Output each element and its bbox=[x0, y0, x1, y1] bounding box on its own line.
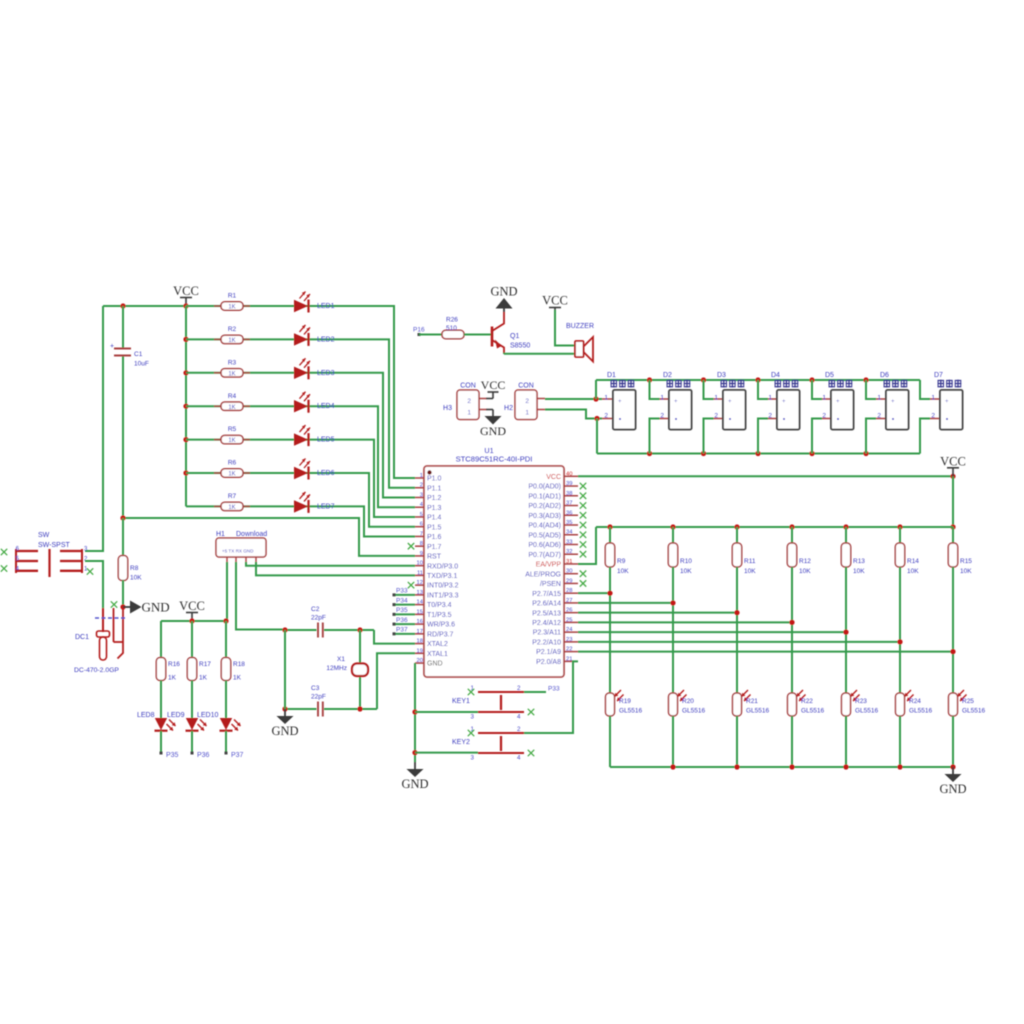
svg-text:30: 30 bbox=[566, 569, 572, 575]
wire VCC to buzzer bbox=[555, 310, 575, 346]
svg-text:1: 1 bbox=[420, 473, 423, 479]
power VCC (buzzer) bbox=[542, 294, 568, 311]
wire P2 bus to R15 column bbox=[578, 649, 956, 654]
svg-text:+: + bbox=[945, 399, 949, 405]
svg-text:D5: D5 bbox=[825, 372, 834, 379]
svg-text:3: 3 bbox=[420, 492, 423, 498]
LED6 diode bbox=[294, 459, 335, 480]
photoresistor R23 GL5516 bbox=[842, 690, 879, 767]
svg-text:1K: 1K bbox=[228, 505, 235, 511]
photoresistor R21 GL5516 bbox=[733, 690, 770, 767]
svg-text:10K: 10K bbox=[130, 575, 142, 582]
net label P37 bbox=[225, 752, 244, 760]
svg-text:+: + bbox=[674, 399, 678, 405]
svg-text:R4: R4 bbox=[228, 393, 237, 400]
svg-text:1K: 1K bbox=[228, 472, 235, 478]
svg-text:8: 8 bbox=[420, 541, 423, 547]
svg-text:LED2: LED2 bbox=[317, 336, 335, 343]
resistor R16 1K bbox=[156, 621, 180, 718]
capacitor C3 22pF bbox=[285, 685, 377, 717]
power VCC (LED8-10 rail) bbox=[179, 599, 205, 621]
svg-text:10K: 10K bbox=[853, 568, 865, 575]
wire MCU GND to ground rail bbox=[412, 663, 417, 762]
wire left outer column to switch bbox=[85, 306, 103, 551]
svg-text:1K: 1K bbox=[199, 675, 208, 682]
ground GND (Q1 collector, arrow up) bbox=[490, 285, 517, 313]
svg-text:LED5: LED5 bbox=[317, 437, 335, 444]
svg-text:2: 2 bbox=[467, 398, 471, 405]
svg-text:DC-470-2.0GP: DC-470-2.0GP bbox=[74, 667, 119, 674]
svg-text:P2.3/A11: P2.3/A11 bbox=[533, 630, 561, 637]
svg-text:+5 TX RX GND: +5 TX RX GND bbox=[222, 549, 254, 554]
wire LED row 5 bbox=[186, 440, 415, 517]
net label P37 stub bbox=[393, 627, 416, 636]
switch SW SW-SPST bbox=[16, 532, 88, 577]
svg-text:10uF: 10uF bbox=[134, 361, 149, 368]
svg-text:LED3: LED3 bbox=[317, 370, 335, 377]
wire D sensors bottom rail bbox=[597, 419, 920, 457]
connector H2 CON bbox=[504, 383, 545, 420]
svg-text:H3: H3 bbox=[443, 405, 452, 412]
svg-text:P1.4: P1.4 bbox=[427, 515, 442, 522]
svg-text:GL5516: GL5516 bbox=[682, 708, 706, 715]
svg-text:LED8: LED8 bbox=[137, 712, 155, 719]
svg-text:1: 1 bbox=[768, 395, 772, 402]
photoresistor R19 GL5516 bbox=[606, 690, 643, 767]
wire VCC column to pull-up rail bbox=[950, 476, 955, 529]
svg-text:R14: R14 bbox=[907, 558, 919, 565]
svg-text:H1: H1 bbox=[216, 531, 225, 538]
svg-text:15: 15 bbox=[417, 609, 423, 615]
wire D sensors top rail bbox=[596, 377, 920, 399]
svg-text:R26: R26 bbox=[446, 317, 458, 324]
LED3 diode bbox=[294, 358, 335, 379]
node DC1 ground junction bbox=[120, 604, 125, 609]
svg-text:GND: GND bbox=[480, 424, 506, 438]
svg-text:D4: D4 bbox=[771, 372, 780, 379]
svg-text:R10: R10 bbox=[680, 558, 692, 565]
svg-text:P1.1: P1.1 bbox=[427, 485, 442, 492]
power VCC (right) bbox=[940, 454, 966, 476]
svg-text:1: 1 bbox=[525, 410, 529, 417]
wire LED row 6 bbox=[186, 473, 415, 527]
svg-text:10K: 10K bbox=[907, 568, 919, 575]
wire P2 bus to R12 column bbox=[578, 620, 795, 625]
svg-text:SW: SW bbox=[38, 532, 50, 539]
svg-text:D7: D7 bbox=[934, 372, 943, 379]
svg-text:5: 5 bbox=[420, 512, 423, 518]
svg-text:1: 1 bbox=[931, 395, 935, 402]
svg-text:1: 1 bbox=[604, 395, 608, 402]
resistor R1 bbox=[214, 293, 250, 311]
svg-text:R18: R18 bbox=[233, 661, 245, 668]
svg-text:P2.6/A14: P2.6/A14 bbox=[532, 601, 561, 608]
LED9 diode bbox=[186, 718, 207, 753]
net label P16 bbox=[413, 327, 442, 337]
svg-text:R2: R2 bbox=[228, 326, 237, 333]
svg-text:1: 1 bbox=[714, 395, 718, 402]
resistor R14 10K bbox=[895, 527, 919, 693]
ground GND (crystal) bbox=[271, 709, 298, 738]
node C2 left junction bbox=[282, 627, 287, 632]
resistor R2 bbox=[214, 326, 250, 344]
svg-text:R20: R20 bbox=[682, 698, 694, 705]
push button KEY2 bbox=[452, 726, 524, 762]
wire LED row 3 bbox=[186, 373, 415, 498]
svg-text:4: 4 bbox=[517, 755, 521, 762]
svg-text:P1.7: P1.7 bbox=[427, 544, 442, 551]
wire KEY1 pin3 to ground rail bbox=[415, 711, 478, 713]
svg-text:2: 2 bbox=[931, 413, 935, 420]
svg-text:STC89C51RC-40I-PDI: STC89C51RC-40I-PDI bbox=[456, 455, 533, 464]
svg-text:X1: X1 bbox=[337, 656, 345, 663]
svg-text:P1.2: P1.2 bbox=[427, 495, 442, 502]
svg-text:39: 39 bbox=[566, 481, 572, 487]
svg-text:P2.2/A10: P2.2/A10 bbox=[532, 639, 561, 646]
crystal X1 12MHz bbox=[326, 630, 368, 709]
svg-text:2: 2 bbox=[604, 413, 608, 420]
ground GND (arrow right at DC1) bbox=[123, 600, 170, 615]
svg-text:26: 26 bbox=[566, 608, 572, 614]
svg-text:Download: Download bbox=[236, 531, 267, 538]
svg-text:R1: R1 bbox=[228, 293, 237, 300]
svg-text:R16: R16 bbox=[168, 661, 180, 668]
svg-text:11: 11 bbox=[417, 570, 423, 576]
svg-text:P37: P37 bbox=[396, 627, 408, 634]
resistor R15 10K bbox=[948, 527, 972, 693]
IC U1 STC89C51RC-40I-PDIP bbox=[415, 446, 578, 677]
svg-text:27: 27 bbox=[566, 598, 572, 604]
svg-text:TXD/P3.1: TXD/P3.1 bbox=[427, 573, 457, 580]
wire EA/VPP to VCC rail bbox=[578, 527, 596, 564]
svg-text:1K: 1K bbox=[233, 675, 242, 682]
svg-text:2: 2 bbox=[877, 413, 881, 420]
svg-text:P34: P34 bbox=[396, 597, 408, 604]
svg-text:D1: D1 bbox=[607, 372, 616, 379]
svg-text:P37: P37 bbox=[231, 752, 244, 759]
net label P36 stub bbox=[393, 617, 416, 626]
label LED8 bbox=[137, 712, 155, 719]
svg-text:GND: GND bbox=[939, 782, 966, 796]
svg-text:R3: R3 bbox=[228, 359, 237, 366]
svg-text:C2: C2 bbox=[311, 606, 320, 613]
wire VCC top rail bbox=[103, 303, 221, 308]
label LED10 bbox=[197, 712, 219, 719]
power VCC (top left) bbox=[173, 284, 199, 306]
svg-text:T1/P3.5: T1/P3.5 bbox=[427, 612, 452, 619]
svg-text:17: 17 bbox=[417, 629, 423, 635]
wire C2-C3 ground column bbox=[284, 630, 286, 709]
svg-text:1: 1 bbox=[467, 410, 471, 417]
svg-text:10K: 10K bbox=[744, 568, 756, 575]
svg-text:CON: CON bbox=[460, 383, 476, 390]
no-connect X DC1 middle contact bbox=[111, 601, 117, 607]
svg-text:3: 3 bbox=[471, 755, 475, 762]
wire photoresistor ground rail bbox=[610, 764, 956, 769]
svg-text:INT0/P3.2: INT0/P3.2 bbox=[427, 583, 459, 590]
push button KEY1 bbox=[452, 685, 524, 721]
resistor R5 bbox=[214, 426, 250, 444]
LED5 diode bbox=[294, 425, 335, 446]
svg-text:R21: R21 bbox=[746, 698, 758, 705]
svg-text:P36: P36 bbox=[396, 617, 408, 624]
wire VCC rail R16-R18 bbox=[161, 618, 229, 623]
svg-text:P2.7/A15: P2.7/A15 bbox=[532, 591, 561, 598]
svg-text:R5: R5 bbox=[228, 426, 237, 433]
svg-text:10K: 10K bbox=[799, 568, 811, 575]
capacitor C2 22pF bbox=[285, 606, 374, 638]
wire KEY2 pin3 to ground rail bbox=[415, 752, 478, 754]
svg-text:19: 19 bbox=[417, 648, 423, 654]
svg-text:ALE/PROG: ALE/PROG bbox=[525, 571, 561, 578]
connector H3 CON bbox=[443, 383, 486, 420]
svg-text:28: 28 bbox=[566, 588, 572, 594]
svg-text:38: 38 bbox=[566, 491, 572, 497]
svg-text:RST: RST bbox=[427, 554, 442, 561]
svg-text:R22: R22 bbox=[801, 698, 813, 705]
svg-text:+: + bbox=[618, 399, 622, 405]
resistor R17 1K bbox=[187, 621, 211, 718]
wire RST net bbox=[120, 515, 415, 556]
svg-text:P1.3: P1.3 bbox=[427, 505, 442, 512]
svg-text:GL5516: GL5516 bbox=[801, 708, 825, 715]
svg-text:1K: 1K bbox=[228, 305, 235, 311]
svg-text:P35: P35 bbox=[396, 607, 408, 614]
resistor R4 bbox=[214, 393, 250, 411]
svg-text:+: + bbox=[782, 399, 786, 405]
svg-text:P2.4/A12: P2.4/A12 bbox=[532, 620, 561, 627]
LED4 diode bbox=[294, 392, 335, 413]
svg-text:P0.5(AD5): P0.5(AD5) bbox=[528, 532, 561, 539]
resistor R12 10K bbox=[787, 527, 811, 693]
no-connect X switch left pins bbox=[1, 549, 7, 572]
svg-text:EA/VPP: EA/VPP bbox=[536, 562, 562, 569]
svg-text:RD/P3.7: RD/P3.7 bbox=[427, 631, 454, 638]
svg-text:P0.7(AD7): P0.7(AD7) bbox=[528, 552, 561, 559]
net label P34 stub bbox=[393, 597, 416, 606]
wire XTAL1 bbox=[377, 653, 415, 709]
svg-text:D3: D3 bbox=[717, 372, 726, 379]
svg-text:KEY2: KEY2 bbox=[452, 739, 470, 746]
svg-text:18: 18 bbox=[417, 639, 423, 645]
photo sensor D3 bbox=[704, 372, 746, 454]
svg-text:10K: 10K bbox=[617, 568, 629, 575]
resistor R7 bbox=[214, 493, 250, 511]
net label P36 bbox=[191, 752, 210, 760]
svg-text:P2.0/A8: P2.0/A8 bbox=[536, 659, 561, 666]
wire P2 bus to R11 column bbox=[578, 610, 740, 615]
svg-text:9: 9 bbox=[420, 551, 423, 557]
svg-text:36: 36 bbox=[566, 510, 572, 516]
svg-text:LED1: LED1 bbox=[317, 303, 335, 310]
svg-text:20: 20 bbox=[417, 658, 423, 664]
svg-text:Q1: Q1 bbox=[510, 333, 519, 340]
svg-text:VCC: VCC bbox=[173, 284, 199, 298]
connector H1 Download bbox=[216, 531, 267, 562]
resistor R11 10K bbox=[732, 527, 756, 693]
svg-text:R13: R13 bbox=[853, 558, 865, 565]
resistor R10 10K bbox=[668, 527, 692, 693]
svg-text:LED7: LED7 bbox=[317, 503, 335, 510]
svg-text:6: 6 bbox=[420, 522, 423, 528]
wire LED row 7 bbox=[186, 506, 415, 536]
photo sensor D6 bbox=[866, 372, 909, 454]
wire H1 pin1 to VCC rail bbox=[226, 562, 228, 621]
svg-text:31: 31 bbox=[566, 559, 572, 565]
svg-text:21: 21 bbox=[566, 656, 572, 662]
wire LED row 2 bbox=[186, 339, 415, 487]
svg-text:12MHz: 12MHz bbox=[326, 665, 347, 672]
svg-text:LED9: LED9 bbox=[167, 712, 185, 719]
svg-text:WR/P3.6: WR/P3.6 bbox=[427, 622, 455, 629]
svg-text:GND: GND bbox=[401, 777, 428, 791]
svg-text:1K: 1K bbox=[228, 371, 235, 377]
svg-text:VCC: VCC bbox=[940, 454, 966, 468]
svg-text:GL5516: GL5516 bbox=[746, 708, 770, 715]
svg-text:2: 2 bbox=[517, 685, 521, 692]
svg-text:H2: H2 bbox=[504, 405, 513, 412]
wire H1 pin3 to RXD bbox=[246, 562, 415, 566]
svg-text:40: 40 bbox=[566, 471, 572, 477]
photo sensor D1 bbox=[602, 372, 636, 430]
svg-text:1: 1 bbox=[877, 395, 881, 402]
wire P2 bus to R10 column bbox=[578, 600, 676, 605]
ground GND (H3) bbox=[480, 410, 506, 439]
no-connect X P1.7 bbox=[408, 543, 414, 549]
label LED9 bbox=[167, 712, 185, 719]
wire H1 pin2 to GND net bbox=[236, 562, 285, 630]
svg-text:23: 23 bbox=[566, 637, 572, 643]
svg-text:14: 14 bbox=[417, 600, 424, 606]
svg-text:22pF: 22pF bbox=[311, 694, 326, 701]
svg-text:12: 12 bbox=[417, 580, 423, 586]
svg-text:P33: P33 bbox=[396, 588, 408, 595]
net label P35 stub bbox=[393, 607, 416, 616]
buzzer BUZZER bbox=[566, 323, 594, 362]
wire XTAL2 bbox=[374, 630, 415, 644]
svg-text:C1: C1 bbox=[134, 351, 143, 358]
svg-text:1K: 1K bbox=[228, 405, 235, 411]
svg-text:2: 2 bbox=[660, 413, 664, 420]
LED1 diode bbox=[294, 292, 335, 313]
svg-text:+: + bbox=[728, 399, 732, 405]
svg-text:P0.4(AD4): P0.4(AD4) bbox=[528, 523, 561, 530]
photoresistor R25 GL5516 bbox=[949, 690, 986, 767]
svg-text:T0/P3.4: T0/P3.4 bbox=[427, 602, 452, 609]
svg-text:INT1/P3.3: INT1/P3.3 bbox=[427, 592, 459, 599]
no-connect X switch pin 1 bbox=[87, 568, 93, 574]
wire pull-up rail R9-R15 bbox=[596, 524, 953, 529]
svg-text:24: 24 bbox=[566, 627, 573, 633]
svg-text:P1.6: P1.6 bbox=[427, 534, 442, 541]
svg-text:2: 2 bbox=[517, 726, 521, 733]
svg-text:GL5516: GL5516 bbox=[619, 708, 643, 715]
svg-text:D6: D6 bbox=[880, 372, 889, 379]
svg-text:R23: R23 bbox=[855, 698, 867, 705]
svg-text:P2.1/A9: P2.1/A9 bbox=[536, 649, 561, 656]
svg-text:32: 32 bbox=[566, 549, 572, 555]
svg-text:37: 37 bbox=[566, 501, 572, 507]
svg-text:LED10: LED10 bbox=[197, 712, 219, 719]
svg-text:P0.0(AD0): P0.0(AD0) bbox=[528, 484, 561, 491]
svg-text:10: 10 bbox=[417, 561, 423, 567]
svg-text:R12: R12 bbox=[799, 558, 811, 565]
svg-text:R19: R19 bbox=[619, 698, 631, 705]
photoresistor R24 GL5516 bbox=[896, 690, 933, 767]
wire VCC P0 supply bbox=[578, 474, 956, 479]
svg-text:R9: R9 bbox=[617, 558, 626, 565]
svg-text:1K: 1K bbox=[168, 675, 177, 682]
svg-text:P16: P16 bbox=[413, 327, 425, 334]
ground GND (right) bbox=[939, 767, 966, 796]
svg-text:P33: P33 bbox=[548, 686, 560, 693]
net label P33 stub bbox=[393, 588, 416, 597]
wire H2 pin1 to D1 pin2 bbox=[545, 410, 602, 422]
svg-text:S8550: S8550 bbox=[510, 343, 530, 350]
resistor R18 1K bbox=[221, 621, 245, 718]
svg-text:7: 7 bbox=[420, 531, 423, 537]
svg-text:4: 4 bbox=[517, 714, 521, 721]
resistor R26 510 bbox=[442, 317, 491, 339]
svg-text:R24: R24 bbox=[909, 698, 921, 705]
svg-text:P36: P36 bbox=[197, 752, 210, 759]
photo sensor D7 bbox=[920, 372, 963, 454]
svg-text:34: 34 bbox=[566, 530, 573, 536]
svg-text:R25: R25 bbox=[962, 698, 974, 705]
svg-text:13: 13 bbox=[417, 590, 423, 596]
wire LED row 4 bbox=[186, 406, 415, 507]
svg-text:GND: GND bbox=[271, 724, 298, 738]
wire P2 bus to R9 column bbox=[578, 591, 613, 596]
svg-text:2: 2 bbox=[420, 483, 423, 489]
svg-text:GND: GND bbox=[490, 285, 517, 299]
svg-text:510: 510 bbox=[446, 325, 457, 332]
LED8 diode bbox=[155, 718, 176, 753]
wire P2 bus to R14 column bbox=[578, 639, 903, 644]
svg-text:VCC: VCC bbox=[546, 474, 561, 481]
svg-text:D2: D2 bbox=[663, 372, 672, 379]
svg-text:25: 25 bbox=[566, 617, 572, 623]
node crystal top junction bbox=[357, 627, 362, 632]
svg-text:2: 2 bbox=[714, 413, 718, 420]
wire KEY2 pin2 to P2.0 bbox=[524, 661, 578, 733]
node C3 junctions bbox=[282, 706, 362, 711]
svg-text:3: 3 bbox=[471, 714, 475, 721]
svg-text:P35: P35 bbox=[166, 752, 179, 759]
wire switch pin 2 to DC jack bbox=[85, 561, 103, 608]
wire P2 bus to R13 column bbox=[578, 630, 849, 635]
svg-text:2: 2 bbox=[525, 398, 529, 405]
svg-text:R11: R11 bbox=[744, 558, 756, 565]
LED10 diode bbox=[220, 718, 241, 753]
svg-text:DC1: DC1 bbox=[75, 634, 89, 641]
svg-text:+: + bbox=[836, 399, 840, 405]
svg-text:R15: R15 bbox=[960, 558, 972, 565]
svg-text:R7: R7 bbox=[228, 493, 237, 500]
svg-text:R8: R8 bbox=[130, 565, 139, 572]
node VCC column with junction dots bbox=[183, 306, 188, 506]
resistor R6 bbox=[214, 460, 250, 478]
LED2 diode bbox=[294, 325, 335, 346]
capacitor C1 10uF bbox=[110, 306, 149, 518]
svg-text:C3: C3 bbox=[311, 685, 320, 692]
svg-text:XTAL1: XTAL1 bbox=[427, 651, 448, 658]
svg-text:1: 1 bbox=[822, 395, 826, 402]
wire KEY1 pin2 net P33 bbox=[524, 686, 560, 693]
svg-text:1K: 1K bbox=[228, 338, 235, 344]
no-connect X KEY2 pins bbox=[468, 730, 534, 756]
svg-text:GL5516: GL5516 bbox=[962, 708, 986, 715]
